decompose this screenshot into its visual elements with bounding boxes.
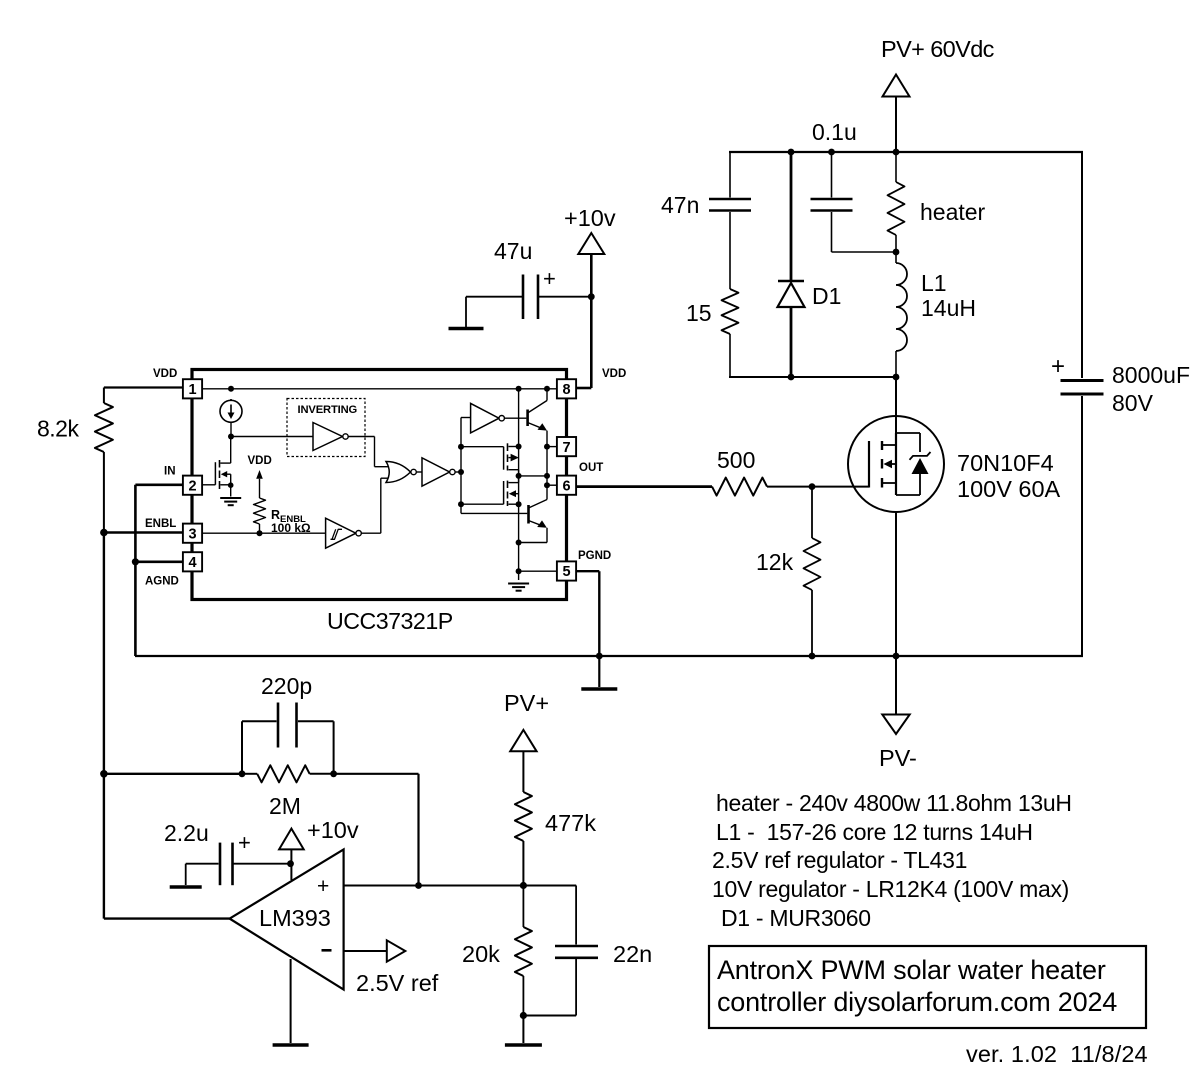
junction dot pin6 node bbox=[544, 482, 550, 488]
junction dot heater/L1 bbox=[893, 249, 900, 256]
svg-text:PV+: PV+ bbox=[504, 690, 549, 716]
junction dot PV+ rail / heater bbox=[893, 149, 900, 156]
transistor M3 source tick bbox=[509, 503, 519, 505]
capacitor 22n bbox=[523, 886, 598, 1016]
ground (PGND stub) bbox=[581, 656, 617, 689]
pin 4 (AGND) bbox=[183, 552, 202, 571]
svg-text:6: 6 bbox=[562, 478, 570, 494]
value label 0.1u bbox=[812, 119, 857, 145]
transistor M1 body arrow bbox=[221, 471, 231, 485]
junction dot PGND/rail bbox=[596, 653, 603, 660]
wire minus input bbox=[344, 950, 387, 952]
svg-text:ENBL: ENBL bbox=[145, 518, 176, 530]
svg-text:LM393: LM393 bbox=[259, 905, 331, 931]
ground (divider) bbox=[505, 1016, 542, 1046]
transistor M3 (pull-down mosfet) channel bbox=[507, 481, 509, 506]
svg-text:15: 15 bbox=[686, 300, 712, 326]
resistor R_ENBL 100k bbox=[254, 498, 266, 533]
svg-text:R: R bbox=[271, 508, 280, 522]
buffer U1a (inverting) bbox=[313, 423, 348, 451]
resistor 20k bbox=[515, 886, 532, 1016]
version text bbox=[966, 1041, 1148, 1067]
svg-text:VDD: VDD bbox=[602, 368, 626, 380]
junction dot Q3 emitter bbox=[516, 540, 522, 546]
svg-text:47n: 47n bbox=[661, 192, 699, 218]
value label 15 bbox=[686, 300, 712, 326]
value label 12k bbox=[756, 549, 794, 575]
power symbol +10v (top) bbox=[578, 233, 604, 388]
svg-text:2.5V ref: 2.5V ref bbox=[356, 970, 439, 996]
wire Q3 base bbox=[461, 512, 527, 514]
transistor Q1 drain jog bbox=[896, 433, 920, 452]
transistor Q1 source tick bbox=[883, 482, 896, 484]
value label 47u bbox=[494, 238, 556, 291]
svg-text:477k: 477k bbox=[545, 810, 596, 836]
junction dot int VDD/current source bbox=[228, 386, 234, 392]
label + input bbox=[317, 875, 329, 898]
wire output node to pins bbox=[519, 447, 547, 486]
wire source to PV- rail bbox=[895, 512, 897, 656]
wire snubber bottom bbox=[729, 376, 896, 378]
junction dot gate-drive upper bbox=[458, 444, 464, 450]
pin 1 (VDD) bbox=[183, 379, 202, 398]
transistor M2 body arrow bbox=[509, 454, 519, 462]
part label 70N10F4 bbox=[957, 450, 1061, 502]
svg-text:2M: 2M bbox=[269, 793, 301, 819]
value label 22n bbox=[613, 941, 652, 967]
svg-text:D1 - MUR3060: D1 - MUR3060 bbox=[721, 905, 871, 931]
pin 7 (OUT) bbox=[557, 437, 576, 456]
value label L1 bbox=[921, 270, 976, 321]
transistor Q1 body arrow bbox=[884, 460, 897, 468]
resistor 8.2k bbox=[95, 388, 113, 533]
junction dot 0.1u top bbox=[828, 149, 835, 156]
notes text block bbox=[712, 790, 1072, 931]
svg-text:L1: L1 bbox=[921, 270, 947, 296]
label 2.5V ref bbox=[356, 970, 439, 996]
junction dot gate node bbox=[809, 483, 816, 490]
transistor Q2 (upper NPN) bbox=[528, 389, 547, 447]
pin label ENBL (pin3) bbox=[145, 518, 176, 530]
wire PGND to rail bbox=[577, 571, 599, 656]
inverter U1e bbox=[471, 403, 505, 433]
svg-text:7: 7 bbox=[562, 440, 570, 456]
ground (internal PGND) bbox=[508, 584, 529, 591]
svg-text:2.2u: 2.2u bbox=[164, 820, 209, 846]
value label 47n bbox=[661, 192, 699, 218]
resistor 12k bbox=[804, 487, 821, 656]
transistor M2 (pull-up mosfet) channel bbox=[507, 443, 509, 470]
svg-text:+10v: +10v bbox=[307, 817, 359, 843]
wire ENBL bbox=[104, 531, 183, 533]
svg-text:14uH: 14uH bbox=[921, 295, 976, 321]
svg-text:2: 2 bbox=[188, 478, 196, 494]
junction dot int VDD/Q2 bbox=[544, 386, 550, 392]
svg-text:1: 1 bbox=[188, 382, 196, 398]
wire buffer out to gates node bbox=[455, 471, 461, 473]
pin 2 (IN) bbox=[183, 476, 202, 495]
wire gate-drive vertical bbox=[460, 418, 462, 514]
label VDD internal bbox=[248, 455, 272, 467]
junction dot IN/AGND bbox=[132, 558, 139, 565]
value label 2M bbox=[269, 793, 301, 819]
junction dot D1 top bbox=[788, 149, 795, 156]
power symbol PV+ (top) bbox=[883, 75, 910, 152]
value label 20k bbox=[462, 941, 500, 967]
svg-text:D1: D1 bbox=[812, 283, 841, 309]
svg-text:+: + bbox=[543, 266, 556, 291]
ground (op-amp) bbox=[273, 959, 309, 1045]
wire AGND bbox=[135, 560, 183, 563]
transistor M1 channel bbox=[219, 460, 221, 489]
pin label OUT (pin6) bbox=[579, 462, 603, 474]
capacitor 8000uF 80V bbox=[1051, 353, 1104, 394]
part label UCC37321P bbox=[327, 608, 453, 634]
wire top PV+ rail bbox=[729, 151, 1083, 153]
svg-text:10V regulator - LR12K4 (100V m: 10V regulator - LR12K4 (100V max) bbox=[712, 876, 1069, 902]
svg-text:47u: 47u bbox=[494, 238, 532, 264]
value label 2.2u bbox=[164, 820, 251, 855]
svg-text:8: 8 bbox=[562, 382, 570, 398]
svg-text:22n: 22n bbox=[613, 941, 652, 967]
capacitor 47u bbox=[466, 275, 591, 320]
wire IN bbox=[135, 485, 183, 656]
value label 477k bbox=[545, 810, 596, 836]
NOR gate U1c bbox=[386, 462, 416, 483]
node +10v label (top) bbox=[564, 205, 616, 231]
svg-text:OUT: OUT bbox=[579, 462, 603, 474]
power symbol PV+ (divider) bbox=[510, 730, 536, 792]
power symbol PV- (bottom) bbox=[882, 656, 909, 734]
transistor M1 gate bar bbox=[214, 462, 216, 485]
transistor M2 source tick bbox=[509, 470, 519, 476]
pin label IN (pin2) bbox=[164, 466, 176, 478]
wire cs to inverting buffer bbox=[231, 436, 313, 438]
junction dot +10v/47u bbox=[588, 293, 595, 300]
value label D1 bbox=[812, 283, 841, 309]
svg-text:5: 5 bbox=[562, 564, 570, 580]
wire +10v to pin 8 bbox=[577, 387, 591, 390]
junction dot gate-drive mid bbox=[458, 469, 464, 475]
pin label VDD (pin8) bbox=[602, 368, 626, 380]
arrow VDD pullup bbox=[256, 470, 263, 498]
svg-text:PV+ 60Vdc: PV+ 60Vdc bbox=[881, 36, 995, 62]
label 100 kOhm bbox=[271, 521, 311, 535]
op-amp driver IC U1 UCC37321P outline bbox=[192, 370, 567, 600]
svg-text:2.5V ref regulator - TL431: 2.5V ref regulator - TL431 bbox=[712, 847, 967, 873]
transistor Q1 gate lead bbox=[812, 486, 869, 488]
wire pin5 internal bbox=[519, 570, 557, 572]
svg-text:AntronX PWM solar water heater: AntronX PWM solar water heater bbox=[717, 955, 1106, 985]
wire NOR to buffer bbox=[416, 471, 422, 473]
buffer U1d bbox=[422, 458, 455, 486]
ground (M1 source) bbox=[220, 498, 241, 505]
junction dot int VDD/M2 bbox=[516, 386, 522, 392]
value label 8000uF 80V bbox=[1112, 362, 1190, 416]
wire buf out to NOR bbox=[348, 437, 389, 467]
label R ENBL bbox=[271, 508, 306, 525]
current source I1 bbox=[220, 399, 242, 437]
svg-text:PGND: PGND bbox=[578, 550, 611, 562]
svg-text:0.1u: 0.1u bbox=[812, 119, 857, 145]
node PV- label bbox=[879, 745, 917, 771]
junction dot output node bbox=[516, 473, 522, 479]
power symbol +10v (op-amp) bbox=[279, 829, 304, 880]
junction dot M3 source bbox=[516, 501, 522, 507]
transistor M1 source bbox=[220, 482, 233, 496]
junction dot R_ENBL/pin3 bbox=[257, 530, 263, 536]
dotted box INVERTING bbox=[287, 399, 365, 457]
junction dot feedback top bbox=[100, 770, 108, 778]
wire fb to plus input bbox=[334, 774, 419, 886]
svg-text:+: + bbox=[1051, 353, 1065, 380]
svg-text:heater - 240v 4800w 11.8ohm 13: heater - 240v 4800w 11.8ohm 13uH bbox=[716, 790, 1072, 816]
transistor Q1 gate bar bbox=[868, 441, 870, 488]
svg-text:L1 - 157-26 core 12 turns 14u: L1 - 157-26 core 12 turns 14uH bbox=[716, 819, 1033, 845]
svg-text:12k: 12k bbox=[756, 549, 794, 575]
symbol 2.5V ref arrow bbox=[387, 940, 406, 961]
pin 8 (VDD) bbox=[557, 379, 576, 398]
wire internal output rail bbox=[518, 389, 520, 580]
resistor 477k bbox=[515, 792, 532, 886]
capacitor 0.1u bbox=[811, 152, 897, 252]
transistor M1 (input mosfet) gate wire bbox=[202, 484, 215, 486]
svg-text:+: + bbox=[317, 875, 329, 898]
junction dot M2 drain bbox=[516, 444, 522, 450]
pin 6 (OUT) bbox=[557, 476, 576, 495]
svg-text:VDD: VDD bbox=[153, 368, 177, 380]
inductor L1 bbox=[896, 252, 907, 377]
wire lower gate bbox=[461, 481, 504, 504]
transistor M1 drain bbox=[220, 437, 230, 464]
wire pin1 VDD bbox=[104, 386, 183, 388]
junction dot out node right bbox=[544, 473, 550, 479]
svg-text:8000uF: 8000uF bbox=[1112, 362, 1190, 388]
wire inverter to Q2 base bbox=[504, 417, 526, 419]
label INVERTING bbox=[298, 404, 358, 416]
svg-text:IN: IN bbox=[164, 466, 176, 478]
junction dot pin7 node bbox=[544, 444, 550, 450]
pin 5 (PGND) bbox=[557, 561, 576, 580]
junction dot 2M right bbox=[330, 770, 337, 777]
wire feedback bbox=[104, 773, 242, 775]
value label 8.2k bbox=[37, 416, 79, 442]
wire to pin 7 bbox=[547, 446, 557, 448]
resistor 15 bbox=[722, 289, 739, 377]
body diode of Q1 bbox=[910, 452, 931, 474]
junction dot snubber/D1 bottom bbox=[788, 374, 795, 381]
transistor Q1 channel bbox=[881, 441, 883, 488]
wire drain bbox=[895, 377, 897, 433]
svg-text:VDD: VDD bbox=[248, 455, 272, 467]
capacitor 220p bbox=[242, 703, 334, 774]
wire bottom PV- rail bbox=[135, 655, 1083, 657]
svg-text:ver. 1.02 11/8/24: ver. 1.02 11/8/24 bbox=[966, 1041, 1148, 1067]
wire upper gate bbox=[461, 447, 504, 470]
wire to internal inverter bbox=[461, 417, 471, 419]
junction dot source/PV- rail bbox=[893, 653, 900, 660]
junction dot gate-drive lower bbox=[458, 501, 464, 507]
resistor heater bbox=[888, 152, 905, 252]
pin label PGND (pin5) bbox=[578, 550, 611, 562]
pin label VDD (pin1) bbox=[153, 368, 177, 380]
svg-text:controller diysolarforum.com 2: controller diysolarforum.com 2024 bbox=[717, 987, 1117, 1017]
wire internal VDD rail bbox=[202, 388, 557, 390]
svg-text:100V 60A: 100V 60A bbox=[957, 476, 1061, 502]
wire pin3 to schmitt bbox=[202, 532, 326, 534]
transistor Q1 source jog bbox=[896, 474, 920, 495]
svg-text:70N10F4: 70N10F4 bbox=[957, 450, 1054, 476]
svg-text:+: + bbox=[238, 830, 251, 855]
svg-text:20k: 20k bbox=[462, 941, 500, 967]
transistor Q3 (lower NPN) bbox=[519, 485, 547, 542]
pin label AGND (pin4) bbox=[145, 576, 179, 588]
svg-text:heater: heater bbox=[920, 199, 986, 225]
ground (47u) bbox=[449, 297, 484, 329]
junction dot divider mid bbox=[520, 882, 527, 889]
ground (2.2u) bbox=[170, 864, 202, 887]
svg-text:80V: 80V bbox=[1112, 390, 1154, 416]
op-amp U2 LM393 bbox=[230, 849, 344, 989]
svg-text:8.2k: 8.2k bbox=[37, 416, 79, 442]
resistor 500 (gate) bbox=[577, 478, 812, 496]
capacitor 2.2u bbox=[186, 843, 291, 886]
wire op-amp output bbox=[104, 917, 230, 919]
wire schmitt out to NOR bbox=[361, 478, 389, 533]
junction dot 12k bottom bbox=[809, 653, 816, 660]
transistor M3 body arrow bbox=[509, 490, 519, 497]
value label heater bbox=[920, 199, 986, 225]
transistor Q1 source bar bbox=[895, 433, 897, 495]
node PV+ supply label bbox=[881, 36, 995, 62]
schmitt inverter U1b bbox=[326, 518, 362, 548]
junction dot snubber/drain bbox=[893, 374, 900, 381]
diode D1 bbox=[778, 152, 805, 377]
value label 220p bbox=[261, 673, 312, 699]
title box bbox=[709, 946, 1146, 1028]
pin 3 (ENBL) bbox=[183, 524, 202, 543]
junction dot 2.2u/+10v bbox=[287, 860, 294, 867]
wire to pin 6 bbox=[547, 484, 557, 486]
junction dot pgnd internal bbox=[516, 568, 522, 574]
part label LM393 bbox=[259, 905, 331, 931]
transistor Q1 drain tick bbox=[883, 444, 896, 446]
node +10v label (op-amp) bbox=[307, 817, 359, 843]
title text bbox=[717, 955, 1117, 1017]
svg-text:4: 4 bbox=[188, 555, 196, 571]
transistor M2 drain tick bbox=[509, 446, 519, 448]
wire plus input bbox=[344, 885, 576, 887]
junction dot current source out bbox=[228, 434, 234, 440]
value label 500 bbox=[717, 447, 755, 473]
label - input bbox=[322, 949, 332, 952]
svg-text:500: 500 bbox=[717, 447, 755, 473]
svg-text:UCC37321P: UCC37321P bbox=[327, 608, 453, 634]
svg-text:+10v: +10v bbox=[564, 205, 616, 231]
svg-text:INVERTING: INVERTING bbox=[298, 404, 358, 416]
node PV+ label (divider) bbox=[504, 690, 549, 716]
capacitor 47n bbox=[709, 152, 751, 289]
wire ENBL node down bbox=[103, 533, 105, 919]
wire right rail down bbox=[1081, 151, 1083, 657]
svg-text:3: 3 bbox=[188, 526, 196, 542]
junction dot 20k bottom bbox=[520, 1012, 527, 1019]
junction dot 2M left bbox=[239, 770, 246, 777]
transistor Q1 70N10F4 body bbox=[848, 416, 944, 512]
resistor 2M bbox=[242, 765, 334, 782]
junction dot fb/plus bbox=[415, 882, 422, 889]
junction dot ENBL node bbox=[100, 529, 108, 537]
svg-text:AGND: AGND bbox=[145, 576, 179, 588]
svg-text:220p: 220p bbox=[261, 673, 312, 699]
svg-text:PV-: PV- bbox=[879, 745, 917, 771]
transistor M3 drain tick bbox=[509, 476, 519, 483]
